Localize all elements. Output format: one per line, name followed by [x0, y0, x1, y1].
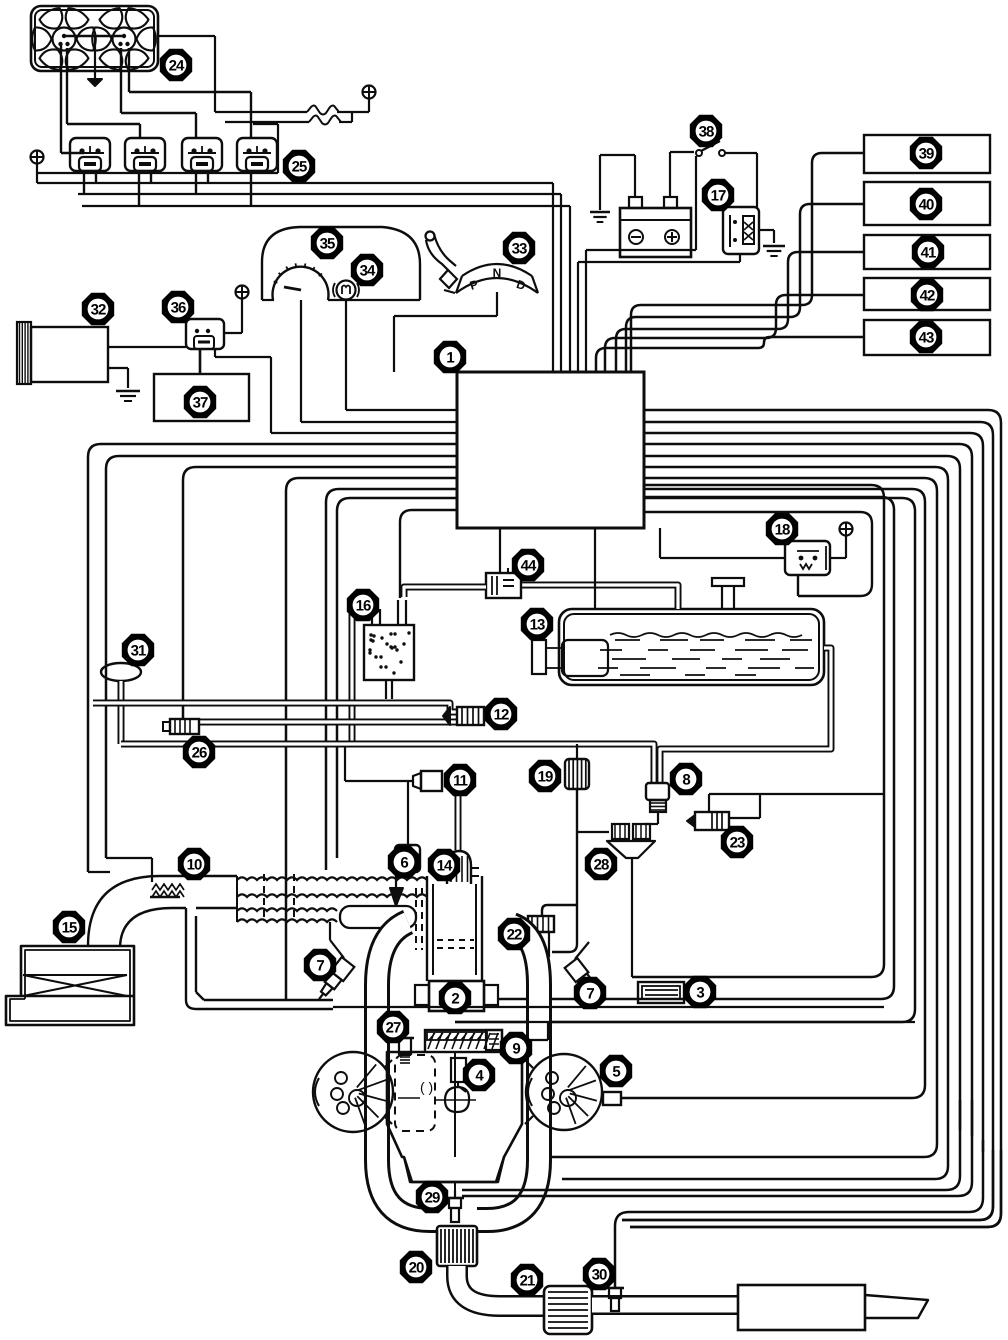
svg-text:22: 22 — [507, 927, 522, 944]
svg-text:40: 40 — [919, 197, 934, 214]
svg-text:37: 37 — [193, 395, 208, 412]
svg-text:30: 30 — [592, 1267, 607, 1284]
svg-text:36: 36 — [171, 300, 186, 317]
svg-text:16: 16 — [356, 598, 371, 615]
svg-text:41: 41 — [921, 245, 936, 262]
svg-text:3: 3 — [696, 985, 704, 1002]
svg-text:44: 44 — [521, 558, 537, 575]
svg-text:9: 9 — [512, 1041, 520, 1058]
svg-text:17: 17 — [711, 188, 726, 205]
svg-text:14: 14 — [437, 858, 453, 875]
svg-text:38: 38 — [699, 124, 714, 141]
svg-text:39: 39 — [919, 146, 934, 163]
svg-text:21: 21 — [520, 1273, 535, 1290]
svg-text:1: 1 — [446, 350, 454, 367]
svg-text:( ): ( ) — [420, 1079, 433, 1095]
svg-text:12: 12 — [494, 707, 509, 724]
svg-text:11: 11 — [453, 773, 468, 790]
svg-text:24: 24 — [169, 58, 185, 75]
svg-text:27: 27 — [386, 1020, 401, 1037]
svg-text:29: 29 — [425, 1190, 440, 1207]
svg-text:5: 5 — [612, 1064, 620, 1081]
svg-text:7: 7 — [316, 958, 324, 975]
svg-text:20: 20 — [409, 1260, 424, 1277]
svg-text:P: P — [468, 277, 480, 293]
svg-text:31: 31 — [131, 643, 146, 660]
svg-text:43: 43 — [919, 330, 934, 347]
svg-text:10: 10 — [187, 857, 202, 874]
svg-text:42: 42 — [920, 288, 935, 305]
svg-text:34: 34 — [360, 263, 376, 280]
svg-text:33: 33 — [512, 241, 527, 258]
svg-text:2: 2 — [451, 991, 459, 1008]
svg-text:25: 25 — [292, 159, 307, 176]
svg-text:8: 8 — [682, 772, 690, 789]
svg-text:26: 26 — [192, 745, 207, 762]
svg-text:35: 35 — [320, 236, 335, 253]
svg-text:23: 23 — [730, 835, 745, 852]
svg-text:6: 6 — [400, 855, 408, 872]
svg-text:N: N — [493, 266, 502, 280]
svg-text:28: 28 — [594, 857, 609, 874]
svg-text:13: 13 — [530, 617, 545, 634]
svg-text:7: 7 — [586, 986, 594, 1003]
svg-text:32: 32 — [91, 302, 106, 319]
svg-text:19: 19 — [538, 769, 553, 786]
svg-text:18: 18 — [775, 522, 790, 539]
svg-text:15: 15 — [62, 920, 77, 937]
